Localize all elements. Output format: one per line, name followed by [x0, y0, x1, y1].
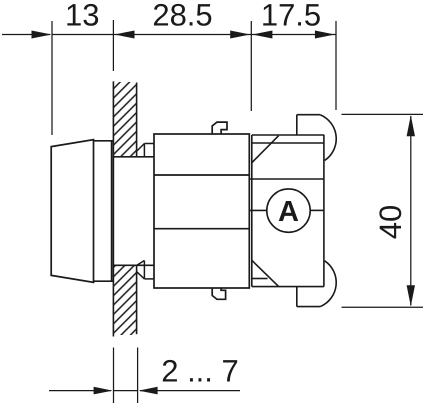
svg-text:13: 13	[65, 0, 99, 33]
svg-text:2 ... 7: 2 ... 7	[161, 354, 239, 389]
svg-text:40: 40	[373, 205, 408, 239]
svg-text:28.5: 28.5	[152, 0, 212, 33]
svg-text:17.5: 17.5	[261, 0, 321, 33]
svg-text:A: A	[278, 196, 299, 228]
